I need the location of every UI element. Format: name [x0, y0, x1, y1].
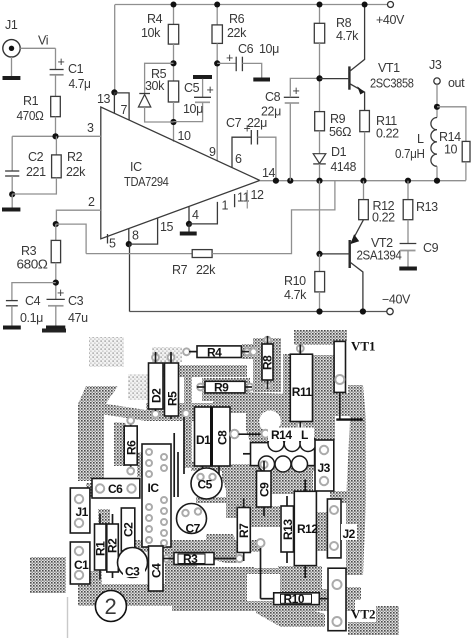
pcb component VT1: [334, 341, 345, 392]
svg-text:0.1μ: 0.1μ: [20, 311, 43, 325]
svg-text:J2: J2: [343, 527, 356, 541]
pcb trace between J3 J2: [330, 491, 347, 503]
svg-text:R3: R3: [21, 244, 37, 258]
svg-text:7: 7: [121, 103, 128, 117]
pcb component R6: [130, 417, 132, 426]
pcb trace blob above R14 with hole: [246, 392, 288, 442]
svg-text:56Ω: 56Ω: [329, 125, 351, 139]
capacitor C6: [217, 62, 236, 64]
resistor R5: [168, 81, 178, 102]
pcb IC pads: [146, 449, 167, 546]
svg-text:C9: C9: [258, 482, 272, 497]
pcb component R12: [304, 480, 306, 492]
pcb pads scattered: [152, 337, 304, 562]
terminal +40V: [388, 2, 394, 8]
svg-text:D1: D1: [331, 145, 347, 159]
wire pin2 node to feedback: [56, 224, 86, 254]
svg-text:R4: R4: [207, 345, 222, 359]
pcb trace vertical left of D1: [184, 365, 192, 468]
node rail R6: [214, 2, 220, 8]
pcb trace bottom mid band: [165, 568, 355, 611]
pcb wire C8 to R14: [230, 430, 238, 438]
wire D1 to out node: [319, 164, 321, 181]
node out C7: [273, 178, 279, 184]
svg-text:C4: C4: [25, 294, 41, 308]
pcb trace J1 C6 gap: [86, 483, 93, 497]
pcb component C8: [211, 407, 230, 466]
svg-text:R13: R13: [281, 519, 295, 540]
wire rail to R6: [216, 5, 218, 25]
pcb trace S below R10: [256, 601, 325, 627]
pcb wire under VT1: [339, 392, 341, 419]
pcb trace right of VT2: [346, 587, 361, 600]
wire C6 to ground: [242, 63, 261, 78]
pcb trace around VT1: [333, 330, 347, 341]
resistor R1: [51, 96, 61, 116]
svg-text:R2: R2: [106, 538, 120, 553]
svg-text:10k: 10k: [141, 26, 161, 40]
wire rail to R8: [319, 5, 321, 24]
wire L to out node: [436, 166, 438, 180]
pcb trace under R11: [285, 403, 312, 440]
wire pin8 down to -40V rail: [129, 244, 131, 311]
pin 5 tick: [107, 234, 109, 244]
svg-text:15: 15: [160, 220, 174, 234]
pcb trace light patch above D2 R5: [152, 347, 182, 362]
pin 2 wire: [56, 210, 100, 224]
pcb trace under R12 R13: [278, 566, 322, 598]
wire R3 to C3/C4: [55, 263, 57, 300]
resistor R4: [168, 24, 178, 44]
svg-text:R4: R4: [147, 12, 163, 26]
resistor R11: [360, 111, 370, 132]
node pin8: [126, 241, 132, 247]
capacitor C9: [400, 243, 417, 245]
pcb trace between R12 and J2: [317, 512, 329, 551]
pcb component C1: [70, 542, 90, 584]
node R4/R5: [170, 60, 176, 66]
svg-text:L: L: [301, 428, 308, 442]
wire R1 to pin3: [55, 117, 57, 137]
diode D2 (parallel R5): [139, 93, 150, 95]
svg-text:4.7k: 4.7k: [284, 288, 307, 302]
node out R11: [360, 178, 366, 184]
svg-text:C6: C6: [108, 482, 123, 496]
resistor R7: [192, 250, 212, 258]
svg-text:R5: R5: [166, 391, 180, 406]
pcb component C3: [118, 548, 148, 578]
resistor R6: [212, 25, 222, 44]
svg-text:out: out: [448, 76, 465, 90]
node out D1: [316, 178, 322, 184]
svg-text:TDA7294: TDA7294: [124, 175, 169, 189]
pcb trace under C9: [250, 506, 280, 527]
pcb trace between C9 and J3: [262, 465, 313, 494]
pcb trace band under R3: [174, 567, 254, 585]
pcb trace pads row under D2 R5: [146, 403, 214, 421]
svg-text:J1: J1: [5, 18, 18, 32]
svg-text:R7: R7: [172, 263, 188, 277]
svg-text:0.7μH: 0.7μH: [395, 147, 425, 161]
ground C4: [3, 326, 21, 330]
ground C6: [253, 78, 270, 82]
resistor R13: [407, 181, 409, 200]
node pin3: [52, 133, 58, 139]
svg-text:C6: C6: [238, 42, 254, 56]
svg-text:R8: R8: [336, 16, 352, 30]
svg-text:R9: R9: [330, 112, 346, 126]
svg-text:2SA1394: 2SA1394: [357, 249, 402, 263]
svg-text:R1: R1: [23, 94, 39, 108]
wire output node line: [260, 180, 466, 182]
wire top +40V rail: [115, 4, 388, 6]
svg-text:2: 2: [88, 195, 95, 209]
svg-text:C8: C8: [265, 90, 281, 104]
transistor VT2 2SA1394: [349, 240, 351, 268]
svg-text:4: 4: [192, 208, 199, 222]
svg-text:R7: R7: [237, 523, 251, 538]
svg-text:R2: R2: [67, 150, 83, 164]
svg-text:2: 2: [105, 594, 117, 619]
pcb component R10: [319, 598, 328, 600]
node rail VT2: [360, 308, 366, 314]
pcb component C4: [149, 546, 164, 591]
pcb trace band under R4: [149, 365, 247, 377]
pcb trace R8 halo: [253, 338, 281, 392]
wire R4 to R5: [173, 44, 175, 81]
svg-text:22k: 22k: [66, 165, 86, 179]
svg-text:C9: C9: [423, 241, 439, 255]
node out L: [434, 178, 440, 184]
svg-text:C1: C1: [74, 558, 89, 572]
svg-text:+: +: [293, 84, 300, 98]
node J3/L: [434, 104, 440, 110]
node rail R4: [171, 2, 177, 8]
inductor L: [431, 118, 437, 167]
wire rail to R4: [173, 5, 175, 25]
pcb component C7: [177, 504, 207, 534]
node C2/R2 gnd: [9, 191, 15, 197]
pcb component C2: [121, 508, 135, 551]
pcb trace band R9 to D1: [213, 396, 251, 413]
pcb component C9: [260, 461, 267, 468]
pin 4 wire: [188, 207, 190, 224]
svg-text:J3: J3: [429, 58, 442, 72]
svg-text:Vi: Vi: [38, 34, 48, 48]
capacitor C3: [47, 298, 65, 300]
pcb component R2: [112, 514, 114, 524]
wire zener to pin10 node: [145, 107, 174, 122]
svg-text:680Ω: 680Ω: [17, 258, 48, 272]
pcb component R1: [99, 514, 101, 524]
pcb trace pads right of R4: [242, 344, 259, 359]
pcb component D1: [195, 407, 212, 466]
wire J1 to C1: [20, 47, 55, 49]
pcb component IC: [142, 444, 171, 547]
svg-text:22k: 22k: [227, 26, 247, 40]
pcb trace light patch mid: [128, 374, 149, 400]
svg-text:D1: D1: [196, 433, 211, 447]
svg-text:C2: C2: [122, 522, 136, 537]
svg-text:C3: C3: [68, 294, 84, 308]
pin 1 wire: [189, 202, 217, 224]
pcb trace top band right: [294, 330, 346, 345]
resistor R12: [363, 181, 365, 200]
svg-text:+: +: [57, 286, 64, 300]
resistor R3: [55, 224, 57, 240]
svg-text:10: 10: [178, 129, 192, 143]
resistor R2: [55, 136, 57, 155]
svg-text:VT2: VT2: [351, 607, 376, 622]
svg-text:13: 13: [97, 92, 111, 106]
pcb leads D1 C8 bottoms: [201, 466, 203, 477]
pcb trace band above R3: [130, 540, 260, 552]
svg-text:+: +: [207, 83, 214, 97]
svg-text:10: 10: [444, 143, 458, 157]
svg-text:C1: C1: [68, 62, 84, 76]
svg-text:+: +: [58, 55, 65, 69]
svg-text:2SC3858: 2SC3858: [370, 77, 414, 91]
node pin10: [170, 119, 176, 125]
svg-text:12: 12: [251, 188, 265, 202]
pin 12 tick: [246, 190, 248, 209]
pcb component R3: [163, 558, 174, 560]
pcb trace blob right of C5 C7: [222, 464, 262, 518]
pcb trace diagonal to pads: [101, 403, 146, 421]
op-amp IC TDA7294: [101, 107, 260, 239]
svg-text:VT1: VT1: [378, 61, 400, 75]
wire R14 to out node: [465, 162, 467, 181]
svg-text:4148: 4148: [331, 160, 357, 174]
svg-text:R12: R12: [297, 522, 318, 536]
svg-text:22k: 22k: [196, 263, 216, 277]
svg-text:C5: C5: [184, 81, 200, 95]
capacitor C4: [6, 300, 18, 302]
svg-text:6: 6: [235, 152, 242, 166]
pcb component J2: [327, 499, 341, 558]
pcb component J3: [315, 440, 334, 491]
pin 15 wire: [129, 218, 158, 244]
resistor R10: [319, 254, 321, 272]
svg-text:R9: R9: [214, 381, 229, 395]
pcb component R4: [189, 351, 197, 353]
node R3 bottom: [53, 280, 59, 286]
svg-text:R13: R13: [416, 200, 438, 214]
svg-text:470Ω: 470Ω: [17, 109, 44, 123]
svg-text:8: 8: [132, 229, 139, 243]
pcb trace bridge C5 C7: [196, 497, 226, 503]
svg-text:10μ: 10μ: [259, 42, 279, 56]
svg-text:IC: IC: [130, 160, 142, 174]
wire rail to pin13: [114, 5, 116, 93]
ground C3: [46, 326, 65, 330]
capacitor C5: [193, 75, 212, 79]
node base VT1: [316, 75, 322, 81]
connector J1: [3, 40, 20, 57]
node R6/C6: [214, 60, 220, 66]
svg-text:C8: C8: [216, 430, 230, 445]
page fold line bottom left: [67, 597, 69, 638]
pcb component R9: [197, 386, 205, 388]
pcb trace pads under R1 R2: [88, 571, 102, 585]
node pin13 junction: [111, 89, 117, 95]
capacitor C1: [55, 48, 57, 69]
pcb component R13: [286, 496, 288, 506]
pcb trace left of R6: [114, 422, 126, 466]
svg-text:+: +: [226, 51, 233, 65]
wire R8 to base node: [319, 43, 321, 112]
svg-text:221: 221: [26, 165, 46, 179]
pcb component C5: [191, 468, 222, 499]
svg-text:C7: C7: [186, 522, 201, 536]
node VT2 base: [316, 251, 322, 257]
pin 7: [114, 93, 129, 120]
wire R13 to C9: [407, 220, 409, 243]
wire R11 to out node: [364, 132, 366, 181]
svg-text:14: 14: [262, 166, 276, 180]
feedback wire R7 right to out: [212, 181, 335, 254]
diode D1 4148: [313, 154, 326, 164]
resistor R9: [315, 112, 325, 131]
pin 3 wire: [12, 135, 101, 137]
node out R13: [405, 178, 411, 184]
wire R9 to D1: [319, 131, 321, 154]
pin 8 wire: [128, 229, 130, 244]
pcb trace right of R6: [137, 452, 146, 477]
pcb component D2: [155, 352, 157, 363]
pcb trace blob under C7: [206, 534, 237, 563]
svg-text:IC: IC: [148, 481, 160, 495]
wire out node down to VT2 base: [319, 181, 321, 254]
svg-text:5: 5: [109, 237, 116, 251]
pcb trace pads under R14 coil: [256, 458, 316, 471]
svg-text:4.7μ: 4.7μ: [69, 77, 91, 91]
pcb trace bottom band left: [78, 584, 172, 606]
pcb component R11: [299, 345, 301, 355]
node rail R10: [316, 308, 322, 314]
pcb component R14 L coil: [243, 453, 251, 455]
bottom -40V rail: [130, 311, 388, 313]
pin 11 tick: [234, 194, 236, 207]
svg-text:R6: R6: [125, 440, 139, 455]
node out C8: [287, 178, 293, 184]
pcb trace bottom-left mass: [30, 557, 66, 593]
pcb trace left bend band: [78, 386, 118, 481]
capacitor C8: [289, 103, 291, 180]
svg-text:R3: R3: [183, 552, 198, 566]
pcb trace top-left black dash: [42, 329, 66, 333]
wire zener branch top: [145, 63, 174, 93]
svg-text:0.22: 0.22: [376, 127, 399, 141]
node rail R8: [317, 2, 323, 8]
pcb trace band IC bottom: [165, 542, 197, 568]
svg-text:10μ: 10μ: [183, 102, 203, 116]
node pin2/R3: [53, 221, 59, 227]
svg-text:R8: R8: [261, 355, 275, 370]
pcb wires between C8 and C5: [173, 433, 175, 497]
svg-text:R6: R6: [229, 12, 245, 26]
pcb trace light patch left: [89, 337, 124, 367]
pcb component C6: [92, 479, 140, 499]
svg-text:47u: 47u: [68, 311, 88, 325]
resistor R14: [462, 141, 470, 161]
ground J1: [11, 57, 13, 77]
feedback wire R7 left: [86, 253, 192, 255]
white pocket around R10 left lead: [247, 574, 280, 601]
svg-text:L: L: [417, 132, 424, 146]
pcb trace right of J1: [98, 509, 110, 527]
svg-text:−40V: −40V: [382, 293, 411, 307]
wire R6 to pin9: [216, 43, 218, 161]
pcb wire R10 left vertical: [260, 545, 262, 599]
pin 13: [113, 92, 115, 113]
svg-text:R14: R14: [271, 428, 292, 442]
pcb trace right of R11: [312, 355, 335, 440]
resistor R8: [314, 23, 324, 43]
svg-text:J3: J3: [318, 461, 331, 475]
svg-text:D2: D2: [150, 388, 164, 403]
svg-text:J1: J1: [76, 505, 89, 519]
ground C9: [399, 267, 417, 271]
wire to C4: [12, 283, 56, 301]
pcb label circled 2: [95, 591, 126, 622]
capacitor C2: [11, 136, 13, 171]
pcb component R7: [243, 498, 245, 508]
svg-text:22μ: 22μ: [261, 105, 281, 119]
svg-text:C7: C7: [226, 116, 242, 130]
pin 6 and capacitor C7: [232, 137, 251, 168]
svg-text:C4: C4: [150, 563, 164, 578]
svg-text:4.7k: 4.7k: [336, 29, 359, 43]
pcb trace R9 surroundings: [202, 378, 250, 401]
pcb component VT2: [328, 568, 346, 631]
wire to R14: [437, 107, 466, 142]
svg-text:R11: R11: [292, 385, 313, 399]
node pin4: [186, 221, 192, 227]
svg-text:R10: R10: [284, 274, 306, 288]
svg-text:C2: C2: [28, 150, 44, 164]
wire R2 to gnd node: [12, 178, 56, 194]
transistor VT1 2SC3858: [348, 66, 350, 89]
pcb component R8: [267, 336, 269, 344]
svg-text:30k: 30k: [145, 79, 165, 93]
pcb component J1: [70, 488, 90, 533]
pcb trace right wavy band: [346, 385, 366, 575]
svg-text:VT1: VT1: [351, 339, 376, 354]
svg-text:0.22: 0.22: [372, 211, 395, 225]
ground pin4: [188, 224, 190, 232]
pcb trace between R8 R11: [283, 354, 290, 439]
svg-text:3: 3: [87, 121, 94, 135]
svg-text:1: 1: [222, 199, 229, 213]
svg-text:C3: C3: [125, 565, 140, 579]
svg-text:C5: C5: [198, 478, 213, 492]
pcb trace pads under C8 D1: [191, 462, 229, 471]
pcb component R5: [170, 352, 172, 363]
svg-text:+40V: +40V: [376, 13, 405, 27]
wire R5 to pin10: [173, 102, 175, 142]
ground C2: [11, 194, 13, 208]
svg-text:R10: R10: [284, 592, 305, 606]
